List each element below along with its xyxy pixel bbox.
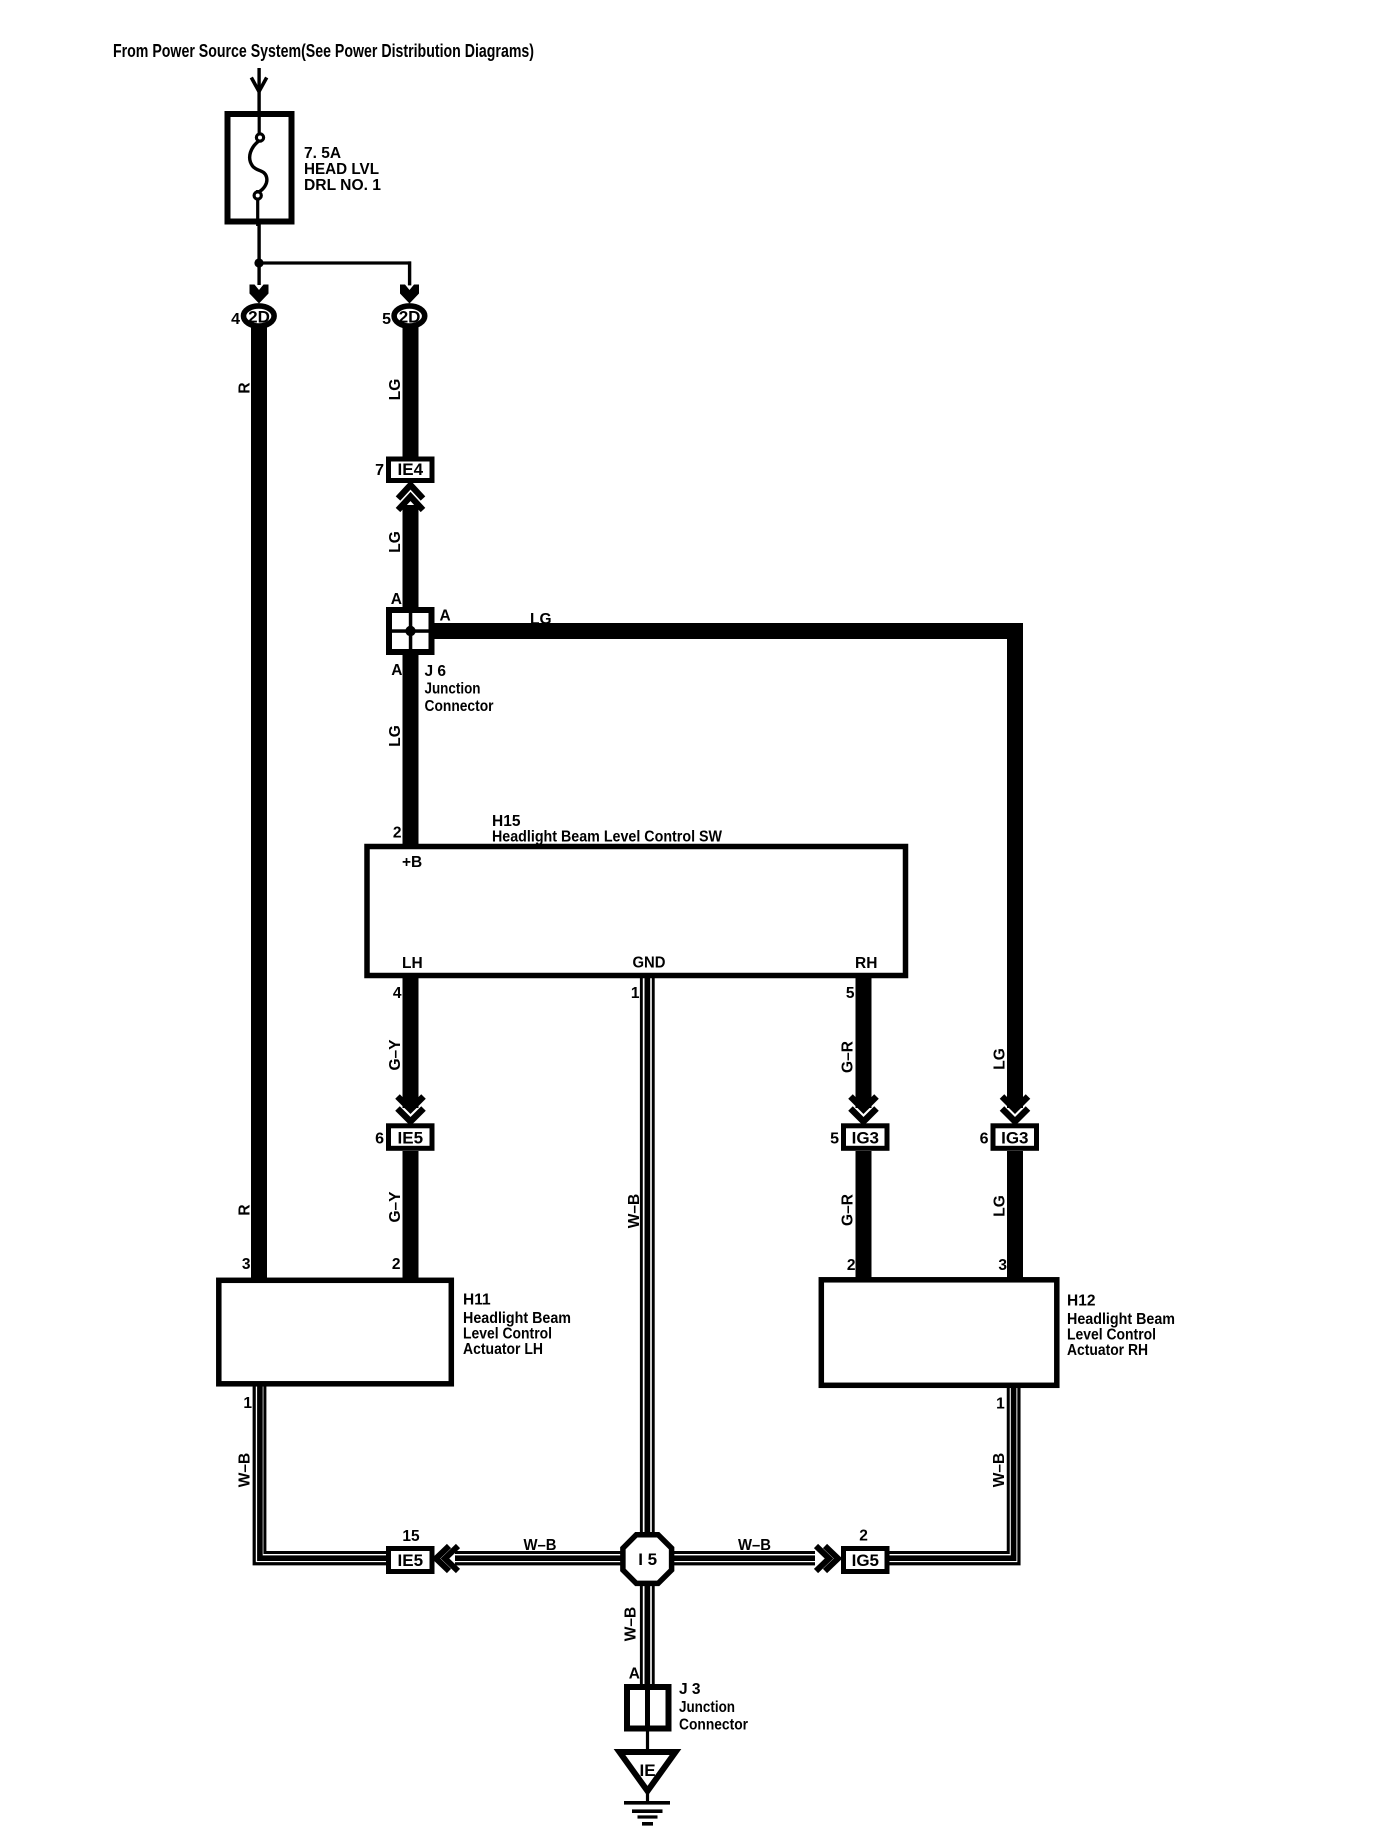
svg-text:Level Control: Level Control <box>463 1326 552 1343</box>
ground triangle IE <box>620 1752 676 1791</box>
fuse 7.5A HEAD LVL DRL NO.1 <box>228 112 292 226</box>
svg-text:LH: LH <box>402 955 423 972</box>
junction connector J3 <box>627 1687 669 1729</box>
svg-text:W–B: W–B <box>524 1537 557 1554</box>
label H12 Headlight Beam Level Control Actuator RH <box>1067 1293 1175 1360</box>
svg-text:LG: LG <box>992 1048 1009 1070</box>
wire G-R: IG3 down to H12 pin 2 <box>856 1151 872 1280</box>
arrow up into IE4 <box>398 485 423 510</box>
arrow down into IG3 pin 5 <box>851 1097 877 1122</box>
svg-text:LG: LG <box>387 725 404 747</box>
svg-text:R: R <box>237 1204 254 1215</box>
svg-text:2: 2 <box>847 1257 856 1274</box>
svg-text:IE: IE <box>639 1761 655 1780</box>
svg-text:A: A <box>391 591 402 608</box>
svg-text:Connector: Connector <box>679 1717 748 1734</box>
arrow down into IE5 pin 6 <box>398 1097 424 1122</box>
wire LG: J6 right to H12 pin 3 <box>429 623 1023 1108</box>
svg-text:Junction: Junction <box>425 681 481 698</box>
svg-text:3: 3 <box>242 1256 251 1273</box>
svg-text:LG: LG <box>530 611 552 628</box>
svg-text:W–B: W–B <box>623 1607 640 1641</box>
actuator H12 <box>821 1280 1057 1386</box>
svg-text:W–B: W–B <box>626 1194 643 1228</box>
svg-text:GND: GND <box>633 955 666 972</box>
wire LG: J6 down to H15 pin 2 (+B) <box>403 650 419 851</box>
svg-text:Connector: Connector <box>425 698 494 715</box>
connector IG5 pin 2 <box>844 1549 888 1572</box>
svg-text:LG: LG <box>387 531 404 553</box>
wire G-Y: IE5 down to H11 pin 2 <box>403 1151 419 1281</box>
switch H15 Headlight Beam Level Control SW <box>367 813 906 1002</box>
wire W-B: H15 GND down to junction I5 <box>640 978 655 1538</box>
svg-text:IG3: IG3 <box>1001 1129 1028 1148</box>
svg-text:4: 4 <box>393 985 402 1002</box>
svg-text:LG: LG <box>992 1195 1009 1217</box>
svg-text:1: 1 <box>243 1395 252 1412</box>
svg-text:HEAD LVL: HEAD LVL <box>304 161 379 178</box>
svg-text:2D: 2D <box>399 308 421 327</box>
svg-text:LG: LG <box>387 379 404 401</box>
connector IG3 pin 5 <box>830 1126 887 1149</box>
arrow chevrons into IG5 pin 2 <box>816 1546 838 1571</box>
svg-text:RH: RH <box>855 955 877 972</box>
wire LG: arrow to J6 <box>403 505 419 612</box>
svg-text:A: A <box>391 662 402 679</box>
svg-text:W–B: W–B <box>738 1537 771 1554</box>
svg-text:H11: H11 <box>463 1292 491 1309</box>
arrow into connector 2D pin 5 <box>400 285 419 304</box>
label J 6 Junction Connector <box>425 663 494 715</box>
wire W-B: IG5 elbow up to H12 pin 1 <box>889 1388 1019 1564</box>
connector IE5 pin 6 <box>375 1126 432 1149</box>
wire: splice branch to connector 2D pin 5 <box>257 261 411 285</box>
svg-text:IG3: IG3 <box>852 1129 879 1148</box>
wire R: 2D pin 4 down to H11 pin 3 <box>251 326 267 1281</box>
svg-text:G–Y: G–Y <box>387 1191 404 1223</box>
svg-text:7. 5A: 7. 5A <box>304 145 341 162</box>
wire: fuse to splice node <box>257 221 260 263</box>
connector IE5 pin 15 <box>389 1549 433 1572</box>
svg-text:IE5: IE5 <box>398 1129 424 1148</box>
svg-text:1: 1 <box>631 985 640 1002</box>
svg-text:4: 4 <box>231 311 240 328</box>
arrow down into IG3 pin 6 <box>1002 1097 1028 1122</box>
actuator H11 <box>219 1280 451 1384</box>
wire: J3 to ground triangle <box>646 1731 649 1753</box>
connector 2D pin 4 <box>231 306 274 328</box>
svg-text:Headlight Beam: Headlight Beam <box>463 1310 571 1327</box>
svg-text:Actuator RH: Actuator RH <box>1067 1342 1148 1359</box>
svg-text:A: A <box>629 1666 640 1683</box>
svg-text:2: 2 <box>392 1256 401 1273</box>
svg-text:H12: H12 <box>1067 1293 1095 1310</box>
svg-text:5: 5 <box>846 985 855 1002</box>
svg-text:G–R: G–R <box>839 1194 856 1226</box>
svg-text:From Power Source System(See P: From Power Source System(See Power Distr… <box>113 41 534 61</box>
svg-text:IE5: IE5 <box>398 1551 424 1570</box>
svg-text:H15: H15 <box>492 813 521 830</box>
arrow into connector 2D pin 4 <box>250 285 269 304</box>
svg-text:Headlight Beam Level Control S: Headlight Beam Level Control SW <box>492 829 722 846</box>
svg-text:2: 2 <box>393 825 402 842</box>
svg-text:Junction: Junction <box>679 1699 735 1716</box>
svg-text:3: 3 <box>998 1257 1007 1274</box>
svg-text:I 5: I 5 <box>638 1550 657 1569</box>
node: splice below fuse <box>254 258 263 267</box>
svg-text:W–B: W–B <box>237 1453 254 1487</box>
label J 3 Junction Connector <box>679 1681 748 1734</box>
wire W-B: H11 pin 1 elbow to IE5 pin 15 <box>254 1386 388 1564</box>
svg-text:J 3: J 3 <box>679 1681 701 1698</box>
svg-text:7: 7 <box>375 462 384 479</box>
svg-text:2: 2 <box>859 1528 868 1545</box>
svg-text:+B: +B <box>402 854 422 871</box>
svg-text:2D: 2D <box>248 308 270 327</box>
svg-text:G–Y: G–Y <box>387 1039 404 1071</box>
wire: power feed into fuse <box>251 68 266 112</box>
svg-text:15: 15 <box>402 1528 420 1545</box>
svg-text:Actuator LH: Actuator LH <box>463 1341 543 1358</box>
svg-text:W–B: W–B <box>991 1453 1008 1487</box>
wire G-R: H15 RH down to IG3 pin 5 <box>856 978 872 1108</box>
junction connector J6 <box>389 610 432 652</box>
svg-text:G–R: G–R <box>839 1041 856 1073</box>
svg-text:6: 6 <box>980 1131 989 1148</box>
svg-text:Headlight Beam: Headlight Beam <box>1067 1311 1175 1328</box>
svg-text:DRL NO. 1: DRL NO. 1 <box>304 177 381 194</box>
label H11 Headlight Beam Level Control Actuator LH <box>463 1292 571 1359</box>
connector 2D pin 5 <box>382 306 425 328</box>
wire LG: IG3 down to H12 pin 3 <box>1007 1151 1023 1280</box>
svg-text:J 6: J 6 <box>425 663 447 680</box>
svg-text:R: R <box>237 382 254 393</box>
junction I5 octagon <box>623 1535 672 1584</box>
svg-text:1: 1 <box>996 1396 1005 1413</box>
label: fuse value 7.5A HEAD LVL DRL NO.1 <box>304 145 381 194</box>
ground symbol <box>624 1791 670 1826</box>
svg-text:A: A <box>440 608 451 625</box>
svg-text:6: 6 <box>375 1131 384 1148</box>
svg-text:IE4: IE4 <box>398 460 424 479</box>
wire W-B: junction I5 down to J3 <box>640 1581 655 1687</box>
wire LG: 2D pin 5 down to IE4 pin 7 <box>403 326 419 459</box>
svg-text:Level Control: Level Control <box>1067 1327 1156 1344</box>
svg-text:5: 5 <box>382 311 391 328</box>
connector IE4 pin 7 <box>375 459 432 481</box>
arrow chevrons into IE5 pin 15 <box>436 1546 458 1571</box>
svg-text:5: 5 <box>830 1131 839 1148</box>
wire G-Y: H15 LH down to IE5 pin 6 <box>403 978 419 1108</box>
wire W-B: junction I5 to IG5 pin 2 <box>670 1551 815 1565</box>
wire W-B: chevrons to junction I5 <box>455 1551 625 1565</box>
connector IG3 pin 6 <box>980 1126 1037 1149</box>
svg-text:IG5: IG5 <box>852 1551 879 1570</box>
